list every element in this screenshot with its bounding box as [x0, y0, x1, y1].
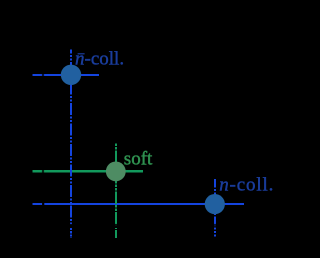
- svg-text:soft: soft: [124, 149, 153, 170]
- svg-text:n-coll.: n-coll.: [219, 174, 273, 195]
- svg-text:n-coll.: n-coll.: [75, 48, 124, 69]
